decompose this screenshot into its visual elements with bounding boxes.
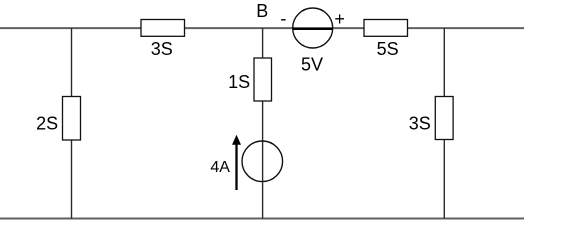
svg-text:2S: 2S — [36, 113, 58, 133]
svg-text:+: + — [334, 9, 345, 29]
svg-text:5V: 5V — [301, 55, 323, 75]
svg-text:-: - — [280, 9, 286, 29]
svg-text:5S: 5S — [377, 39, 399, 59]
svg-text:1S: 1S — [228, 72, 250, 92]
svg-text:3S: 3S — [151, 39, 173, 59]
svg-text:B: B — [256, 1, 268, 21]
svg-text:3S: 3S — [409, 113, 431, 133]
svg-text:4A: 4A — [210, 159, 230, 176]
